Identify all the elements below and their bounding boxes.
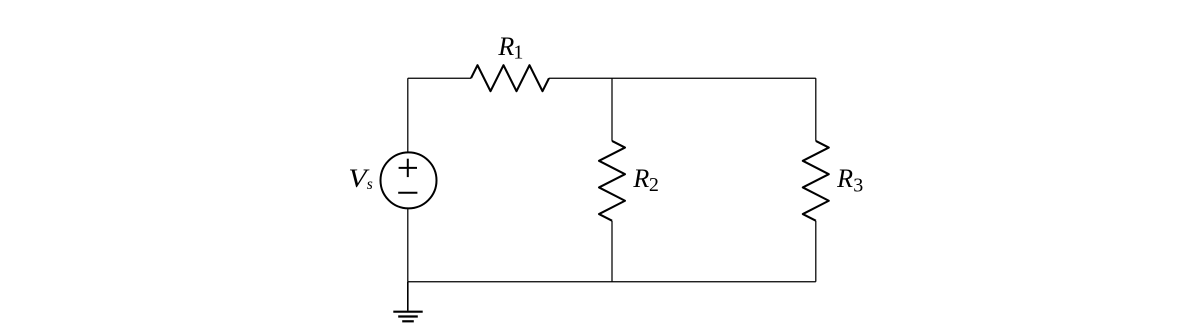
- svg-text:R: R: [632, 164, 649, 193]
- svg-text:3: 3: [853, 174, 863, 196]
- svg-text:R: R: [836, 164, 853, 193]
- svg-text:2: 2: [649, 174, 659, 196]
- svg-text:1: 1: [513, 41, 523, 63]
- svg-text:R: R: [497, 32, 514, 61]
- svg-text:s: s: [367, 176, 373, 193]
